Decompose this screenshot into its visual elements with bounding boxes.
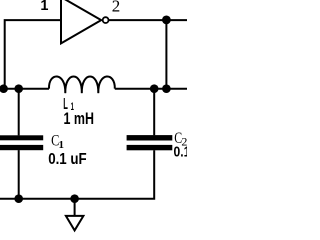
wire C2 top lead	[153, 89, 155, 136]
node junction dot output net	[162, 16, 171, 25]
node junction dot C1 top	[14, 84, 23, 93]
node junction dot right rail / middle net	[162, 84, 171, 93]
wire middle net right segment	[115, 88, 188, 90]
svg-text:2: 2	[112, 0, 121, 16]
svg-text:1: 1	[40, 0, 48, 14]
op-amp U1 inverter triangle	[61, 0, 101, 43]
inductor L1	[49, 76, 115, 93]
wire input net: top wire from left rail to inverter input, down left rail	[5, 20, 62, 89]
capacitor C2 top plate	[127, 135, 173, 140]
node junction dot C1 bottom	[14, 194, 23, 203]
svg-text:1: 1	[59, 139, 65, 151]
svg-text:1 mH: 1 mH	[64, 109, 95, 128]
capacitor C2 bottom plate	[127, 145, 173, 150]
node junction dot C2 top	[150, 84, 159, 93]
op-amp U1 inverter bubble	[103, 17, 109, 23]
svg-text:0.1 uF: 0.1 uF	[174, 144, 188, 161]
svg-text:0.1 uF: 0.1 uF	[48, 151, 87, 168]
wire C1 top lead	[18, 89, 20, 136]
node junction dot left rail / middle net	[0, 84, 8, 93]
ground	[66, 216, 84, 231]
wire C1 bottom lead	[18, 150, 20, 199]
capacitor C1 bottom plate	[0, 145, 43, 150]
wire output net: inverter output to right edge	[109, 19, 188, 21]
node junction dot ground net	[70, 194, 79, 203]
capacitor C1 top plate	[0, 135, 43, 140]
wire middle net left segment	[0, 88, 49, 90]
wire C2 bottom lead and bottom ground net	[0, 150, 154, 199]
wire ground stub	[74, 199, 76, 216]
wire right rail down from output node	[165, 20, 167, 89]
